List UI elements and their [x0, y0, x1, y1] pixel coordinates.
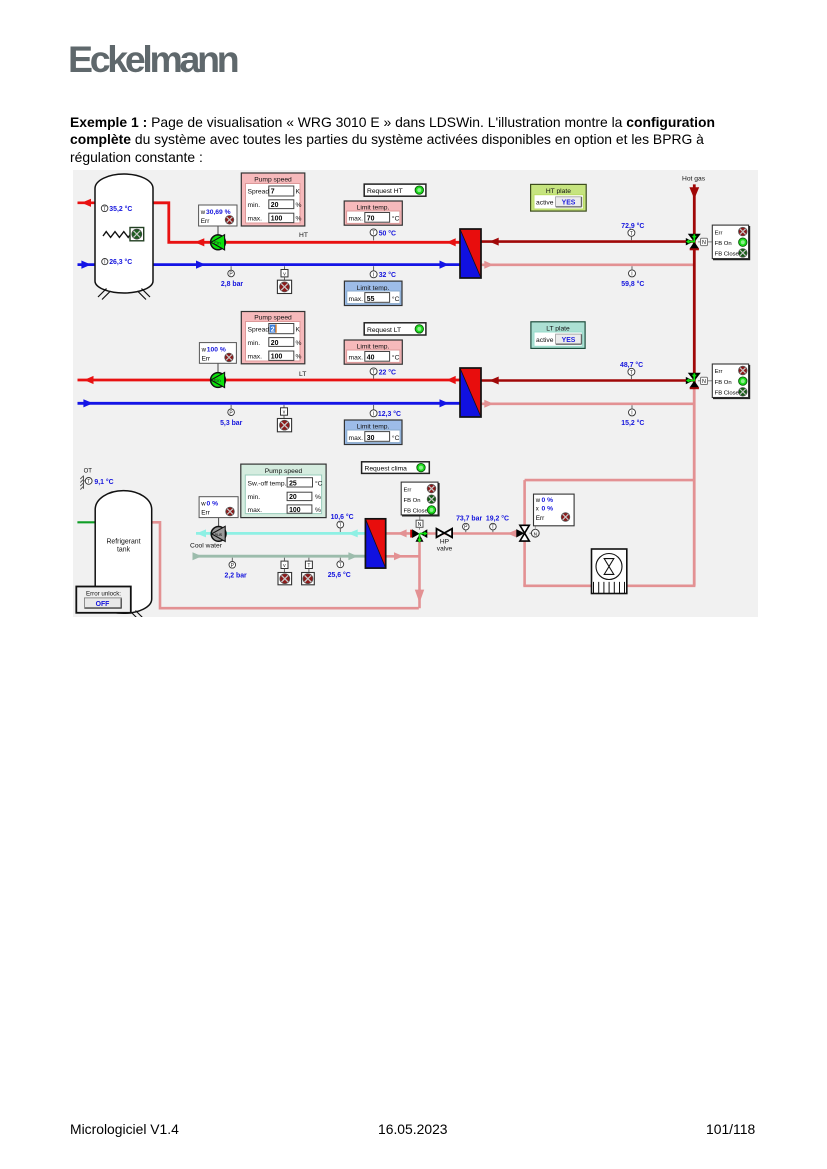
wire: HT hot-gas dark red pipe to valve	[481, 238, 693, 246]
buffer tank T1	[95, 174, 153, 300]
wire: salmon vertical pipe below LT valve	[693, 386, 696, 586]
hot gas valve LT	[686, 373, 701, 390]
wire: HT supply red stub at tank left	[78, 199, 96, 207]
svg-text:FB Close: FB Close	[715, 391, 740, 397]
T1 heating element	[103, 228, 144, 241]
HT pressure sensor	[221, 266, 244, 288]
wire: salmon pipe heat exchanger 3 lower outlet	[386, 552, 420, 560]
svg-text:T: T	[491, 525, 494, 531]
svg-text:active: active	[536, 200, 554, 207]
svg-text:max.: max.	[349, 355, 364, 362]
svg-text:50 °C: 50 °C	[379, 229, 396, 237]
wire: cool water cyan pipe	[196, 529, 365, 537]
svg-text:48,7 °C: 48,7 °C	[620, 361, 643, 369]
svg-text:x: x	[536, 506, 539, 512]
wire: salmon vertical drop below clima valve	[415, 539, 424, 608]
schematic screenshot area	[73, 170, 758, 617]
svg-text:FB Close: FB Close	[404, 509, 429, 515]
wire: compressor loop top horizontal pipe	[525, 479, 696, 482]
svg-text:%: %	[296, 340, 302, 347]
wire: green refrigerant feed line	[77, 521, 95, 523]
svg-text:Refrigerant: Refrigerant	[106, 539, 140, 546]
request LT panel	[364, 323, 426, 335]
HT drain valve	[277, 266, 291, 293]
svg-text:N: N	[418, 522, 422, 528]
limit temp panel HT	[344, 201, 402, 225]
heat exchanger HX3	[365, 519, 385, 568]
svg-text:°C: °C	[392, 295, 400, 303]
svg-text:max.: max.	[248, 353, 263, 360]
svg-text:Err: Err	[715, 369, 723, 375]
svg-text:I: I	[631, 272, 632, 278]
request clima panel	[362, 462, 430, 474]
svg-text:T: T	[339, 523, 342, 529]
wire: LT supply red pipe	[78, 376, 461, 384]
svg-text:Err: Err	[404, 487, 412, 493]
svg-text:0 %: 0 %	[542, 497, 554, 504]
wire: salmon pipe refrigerant tank loop	[152, 522, 419, 608]
svg-text:Aus: Aus	[214, 532, 223, 537]
svg-text:Request HT: Request HT	[367, 188, 403, 195]
HT pipe label	[299, 232, 308, 239]
svg-text:K: K	[296, 327, 301, 334]
bypass valve V2	[516, 525, 529, 541]
limit temp panel LT	[344, 340, 402, 364]
svg-text:tank: tank	[117, 547, 131, 554]
svg-text:9,1 °C: 9,1 °C	[94, 478, 113, 486]
svg-text:Err: Err	[201, 218, 210, 225]
svg-text:40: 40	[367, 355, 375, 362]
svg-text:Request LT: Request LT	[367, 327, 401, 334]
svg-text:100 %: 100 %	[207, 347, 226, 354]
svg-text:T: T	[372, 370, 375, 376]
svg-text:FB Close: FB Close	[715, 252, 740, 258]
svg-text:70: 70	[367, 216, 375, 223]
svg-text:Sw.-off temp.: Sw.-off temp.	[248, 480, 287, 487]
svg-text:I: I	[373, 272, 374, 278]
footer right	[706, 1121, 755, 1137]
svg-text:°C: °C	[392, 215, 400, 223]
svg-text:N: N	[702, 379, 706, 385]
svg-text:FB On: FB On	[715, 380, 732, 386]
svg-text:YES: YES	[562, 337, 576, 344]
svg-text:w: w	[535, 498, 541, 504]
T1 temperature sensor top	[101, 205, 132, 213]
svg-text:72,9 °C: 72,9 °C	[621, 222, 644, 230]
svg-text:°C: °C	[392, 434, 400, 442]
svg-text:max.: max.	[349, 216, 364, 223]
refrigerant tank T2	[95, 491, 152, 621]
svg-text:22 °C: 22 °C	[379, 368, 396, 376]
svg-text:0 %: 0 %	[542, 505, 554, 512]
LT drain valve	[277, 405, 291, 432]
svg-text:30,69 %: 30,69 %	[206, 209, 231, 216]
HT supply temp sensor	[370, 229, 396, 241]
footer left	[70, 1121, 179, 1137]
pump P2 status box	[199, 343, 236, 364]
svg-text:active: active	[536, 337, 554, 344]
svg-text:0 %: 0 %	[207, 501, 219, 508]
svg-text:T: T	[630, 370, 633, 376]
T1 temperature sensor bottom	[102, 258, 133, 266]
svg-text:min.: min.	[248, 494, 261, 501]
HP valve	[437, 529, 453, 553]
HT return temp sensor	[370, 266, 396, 279]
svg-text:20: 20	[271, 340, 279, 347]
wire: compressor loop left vertical pipe through valve	[523, 480, 526, 586]
svg-text:Err: Err	[202, 356, 211, 363]
hot gas label	[682, 176, 706, 183]
LT pressure sensor	[220, 405, 243, 427]
svg-text:Err: Err	[201, 510, 210, 517]
wire: HT supply red pipe tank to heat exchanger	[153, 203, 460, 247]
limit temp panel LT blue	[344, 420, 402, 445]
svg-text:HT: HT	[299, 232, 308, 239]
svg-text:2,8 bar: 2,8 bar	[221, 281, 244, 288]
hot gas valve HT N-box link	[698, 238, 712, 246]
wire: HT condensate salmon return pipe	[481, 261, 693, 269]
clima valve V1 N-box	[416, 515, 423, 530]
cool water label	[190, 543, 223, 550]
svg-text:Hot gas: Hot gas	[682, 176, 706, 183]
svg-text:w: w	[201, 348, 207, 354]
svg-text:T: T	[372, 231, 375, 237]
outdoor temperature sensor OT	[80, 468, 113, 489]
svg-text:35,2 °C: 35,2 °C	[109, 205, 132, 213]
wire: LT condensate salmon return pipe	[481, 400, 693, 408]
HP line temp sensor	[486, 514, 509, 532]
svg-text:25,6 °C: 25,6 °C	[328, 571, 351, 579]
svg-text:FB On: FB On	[404, 498, 421, 504]
wire: cool water sage return pipe	[193, 552, 366, 560]
svg-text:Pump speed: Pump speed	[254, 315, 292, 322]
pump P3 cool water	[211, 518, 226, 542]
HT condensate temp sensor	[621, 266, 644, 288]
hot gas valve HT status panel	[712, 225, 749, 259]
W X status panel	[534, 494, 575, 526]
svg-text:59,8 °C: 59,8 °C	[621, 280, 644, 288]
cool water drain valve v	[278, 558, 292, 585]
svg-text:Pump speed: Pump speed	[254, 177, 292, 184]
svg-text:min.: min.	[248, 340, 261, 347]
svg-text:max.: max.	[248, 507, 263, 514]
wire: salmon pipe heat exchanger 3 to clima valve	[386, 529, 414, 537]
wire: compressor loop bottom horizontal pipe	[523, 584, 695, 587]
svg-text:Error unlock:: Error unlock:	[86, 590, 121, 597]
svg-text:°C: °C	[315, 479, 323, 487]
pump P1 status box	[199, 205, 237, 226]
svg-text:YES: YES	[562, 200, 576, 207]
svg-text:max.: max.	[349, 435, 364, 442]
wire: HT return blue stub at tank left	[78, 261, 96, 269]
svg-text:T: T	[307, 563, 310, 569]
svg-text:FB On: FB On	[715, 241, 732, 247]
limit temp panel HT blue	[344, 281, 402, 305]
HT hot gas temp sensor	[621, 222, 644, 240]
svg-text:Err: Err	[715, 230, 723, 236]
HP line pressure sensor	[456, 515, 482, 532]
pump speed panel clima	[241, 464, 326, 517]
clima valve status panel	[401, 482, 439, 516]
svg-text:30: 30	[367, 435, 375, 442]
pump P2 LT	[211, 363, 226, 387]
svg-text:Ein: Ein	[214, 240, 221, 245]
svg-text:Spread: Spread	[248, 189, 270, 196]
svg-text:N: N	[534, 531, 538, 537]
svg-text:2,2 bar: 2,2 bar	[225, 572, 248, 579]
hot gas valve LT N-box link	[698, 377, 712, 385]
bypass valve V2 N-circle	[530, 526, 540, 538]
heat exchanger HX2	[460, 368, 481, 417]
svg-text:°C: °C	[392, 354, 400, 362]
svg-text:73,7 bar: 73,7 bar	[456, 515, 482, 522]
svg-text:7: 7	[271, 189, 275, 196]
wire: HT return blue pipe tank to heat exchanger	[153, 261, 460, 269]
svg-text:Ein: Ein	[214, 378, 221, 383]
svg-text:%: %	[296, 202, 302, 209]
svg-text:LT plate: LT plate	[546, 325, 570, 332]
svg-text:T: T	[87, 479, 90, 485]
cool water return temp sensor	[328, 558, 351, 579]
svg-text:Pump speed: Pump speed	[265, 468, 303, 475]
pump P1 HT	[211, 226, 226, 250]
svg-text:Err: Err	[536, 515, 545, 522]
svg-text:%: %	[315, 494, 321, 501]
svg-text:T: T	[103, 206, 106, 212]
HT plate panel	[531, 184, 587, 211]
Eckelmann logo	[68, 38, 236, 81]
svg-text:w: w	[200, 210, 206, 216]
LT supply temp sensor	[370, 368, 396, 379]
svg-text:I: I	[631, 411, 632, 417]
svg-text:Cool water: Cool water	[190, 543, 223, 550]
svg-text:min.: min.	[248, 202, 261, 209]
cool water supply temp sensor	[331, 513, 354, 532]
hot gas valve LT status panel	[712, 364, 749, 398]
svg-text:%: %	[296, 353, 302, 360]
svg-text:max.: max.	[248, 216, 263, 223]
svg-text:%: %	[315, 507, 321, 514]
svg-text:2: 2	[271, 327, 275, 334]
svg-text:100: 100	[271, 216, 283, 223]
svg-text:10,6 °C: 10,6 °C	[331, 513, 354, 521]
hot gas valve HT	[686, 234, 701, 251]
svg-text:15,2 °C: 15,2 °C	[621, 419, 644, 427]
LT return temp sensor	[370, 405, 401, 418]
svg-text:HT plate: HT plate	[546, 188, 571, 195]
svg-text:max.: max.	[349, 296, 364, 303]
svg-text:LT: LT	[299, 371, 306, 378]
svg-text:25: 25	[289, 480, 297, 487]
LT plate panel	[531, 322, 585, 349]
wire: hot gas vertical dark red pipe	[689, 184, 699, 386]
wire: salmon pipe HP valve line	[425, 530, 517, 538]
error unlock panel	[76, 587, 131, 613]
wire: LT return blue pipe	[78, 399, 461, 407]
footer center	[378, 1121, 448, 1137]
svg-text:OT: OT	[84, 468, 93, 474]
request HT panel	[364, 184, 426, 196]
LT hot gas temp sensor	[620, 361, 643, 379]
wire: LT hot-gas dark red pipe to valve	[481, 377, 693, 385]
caption paragraph	[70, 114, 780, 166]
LT condensate temp sensor	[621, 405, 644, 427]
clima 3-way valve V1	[410, 529, 427, 542]
svg-text:Request clima: Request clima	[365, 466, 408, 473]
svg-text:OFF: OFF	[96, 601, 110, 608]
svg-text:w: w	[200, 502, 206, 508]
svg-text:K: K	[296, 189, 301, 196]
svg-text:12,3 °C: 12,3 °C	[378, 410, 401, 418]
svg-text:T: T	[630, 231, 633, 237]
svg-text:Spread: Spread	[248, 327, 270, 334]
svg-text:100: 100	[289, 507, 301, 514]
cool water drain valve T	[302, 558, 315, 585]
heat exchanger HX1	[460, 229, 481, 278]
pump P3 status box	[199, 497, 238, 518]
compressor	[592, 549, 627, 594]
pump speed panel HT	[241, 173, 304, 226]
svg-text:valve: valve	[437, 545, 453, 552]
svg-text:19,2 °C: 19,2 °C	[486, 514, 509, 522]
svg-text:32 °C: 32 °C	[379, 271, 396, 279]
cool water pressure sensor	[225, 558, 248, 580]
svg-text:55: 55	[367, 296, 375, 303]
LT pipe label	[299, 371, 306, 378]
svg-text:N: N	[702, 240, 706, 246]
svg-text:5,3 bar: 5,3 bar	[220, 420, 243, 427]
svg-text:I: I	[104, 260, 105, 266]
svg-text:26,3 °C: 26,3 °C	[109, 258, 132, 266]
svg-text:T: T	[339, 562, 342, 568]
svg-text:20: 20	[271, 202, 279, 209]
pump speed panel LT	[241, 312, 304, 364]
svg-text:HP: HP	[440, 538, 450, 545]
svg-text:%: %	[296, 216, 302, 223]
svg-text:I: I	[373, 411, 374, 417]
svg-text:20: 20	[289, 494, 297, 501]
svg-text:100: 100	[271, 353, 283, 360]
